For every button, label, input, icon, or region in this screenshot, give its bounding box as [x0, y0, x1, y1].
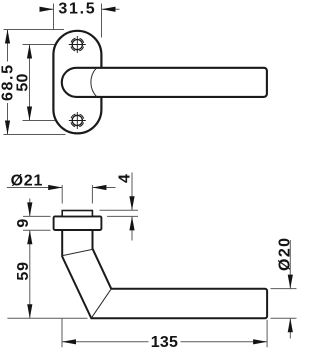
svg-text:9: 9	[15, 219, 32, 228]
svg-text:Ø21: Ø21	[11, 172, 44, 189]
svg-text:50: 50	[15, 73, 32, 91]
svg-text:4: 4	[116, 174, 133, 183]
svg-text:31.5: 31.5	[58, 1, 96, 18]
svg-text:59: 59	[15, 261, 32, 280]
svg-text:135: 135	[151, 334, 178, 350]
svg-text:Ø20: Ø20	[277, 237, 294, 271]
